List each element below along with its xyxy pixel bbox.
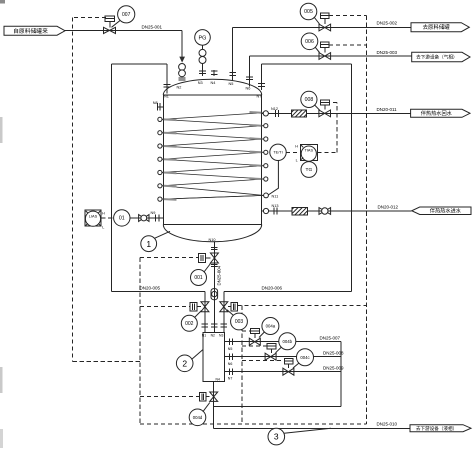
flange on DN20-011: [274, 110, 276, 117]
instrument bubble 006: [301, 33, 318, 50]
pipe DN20-006 horizontal: [224, 291, 352, 293]
shutoff valve 002: [201, 302, 209, 312]
svg-text:N4: N4: [216, 378, 220, 382]
instrument bubble 002: [181, 315, 197, 331]
vessel 1 shell: [162, 95, 164, 225]
equipment tag 3: [268, 428, 285, 445]
svg-text:DN20-012: DN20-012: [378, 205, 399, 210]
svg-text:DN20-006: DN20-006: [262, 286, 283, 291]
blind flange N4: [211, 70, 218, 72]
coil pass nozzles on vessel walls: [158, 117, 162, 121]
svg-text:01: 01: [119, 215, 125, 221]
svg-text:去下游设备（气相）: 去下游设备（气相）: [416, 54, 457, 61]
pipe: tank2 N4 drop line: [213, 382, 215, 429]
instrument bubble 003: [231, 313, 248, 330]
svg-text:H: H: [102, 211, 105, 215]
svg-text:去原料储罐: 去原料储罐: [423, 23, 451, 31]
signal line (dashed) to valve 004d solenoid box: [140, 396, 200, 398]
svg-text:DN25-010: DN25-010: [377, 422, 398, 427]
svg-text:N3: N3: [198, 81, 203, 85]
svg-text:004d: 004d: [193, 415, 203, 420]
svg-text:N6: N6: [228, 362, 233, 366]
svg-text:L: L: [102, 225, 104, 229]
svg-text:3: 3: [274, 432, 279, 442]
svg-text:伴热热水进水: 伴热热水进水: [430, 207, 462, 215]
flange N5: [229, 71, 236, 73]
control valve 004c: [283, 368, 294, 375]
pipe: N5 riser to DN25-002: [232, 28, 234, 82]
svg-text:L: L: [296, 159, 298, 163]
signal line (dashed) vertical riser x=140: [139, 258, 141, 424]
svg-text:004a: 004a: [266, 324, 276, 329]
nozzle N12: [263, 111, 268, 116]
vessel 1 top head: [163, 79, 261, 95]
pipe: bottom header upper run: [214, 406, 341, 408]
temperature gauge TG: [301, 162, 317, 178]
shutoff valve 001: [210, 253, 218, 263]
break flanges above tank 2: [202, 323, 209, 325]
pipe: N4 stub: [213, 70, 215, 76]
nozzle N11: [264, 193, 269, 198]
pipe: N3 riser to pressure gauge PG: [202, 45, 204, 76]
signal line (dashed) bottom rail: [140, 423, 367, 425]
svg-text:006: 006: [305, 39, 314, 45]
vessel 1 internal heating coil: [162, 113, 264, 120]
flange N10: [211, 247, 218, 249]
flange N2: [179, 77, 186, 79]
signal line (dashed) from valve 006 actuator: [329, 44, 367, 46]
svg-text:N5: N5: [229, 82, 234, 86]
flange N9: [155, 214, 157, 221]
control valve 005: [319, 24, 331, 31]
instrument bubble 004d: [189, 409, 206, 426]
equipment tag 1: [141, 236, 157, 252]
ball valve on level line: [139, 215, 149, 222]
signal line (dashed) from valve 007 actuator down left side: [73, 16, 106, 18]
svg-text:H: H: [295, 144, 298, 148]
svg-text:DN25-009: DN25-009: [323, 365, 344, 370]
svg-text:TIAS: TIAS: [304, 148, 313, 153]
svg-text:005: 005: [304, 9, 313, 15]
svg-text:DN25-007: DN25-007: [320, 335, 341, 340]
pipe: feed line from flag to valve 007 to N2 riser: [63, 30, 182, 32]
shutoff valve 003: [220, 302, 228, 312]
instrument bubble 005: [300, 3, 317, 20]
flexible hose (hatched) DN20-012: [292, 207, 308, 214]
svg-text:2: 2: [182, 358, 187, 368]
instrument bubble 008: [301, 91, 317, 107]
svg-text:001: 001: [194, 275, 203, 281]
instrument bubble 004a: [262, 318, 279, 335]
svg-text:LIAS: LIAS: [89, 213, 98, 218]
control valve 004b: [265, 353, 276, 360]
signal line (dashed) LIAS to level instrument 01: [101, 217, 114, 219]
flag: from raw material tank: [4, 26, 65, 35]
control valve 007: [104, 27, 116, 33]
instrument bubble 004b: [279, 333, 296, 350]
svg-text:DN25-001: DN25-001: [142, 24, 163, 29]
vessel 1 bottom head: [163, 225, 261, 242]
pipe: DN20-005 drop into valve 002 and tank 2 N1: [204, 292, 206, 333]
svg-text:自原料储罐来: 自原料储罐来: [13, 27, 48, 35]
pipe: level gauge line to N9: [114, 217, 164, 219]
signal line (dashed) to valve 002 solenoid box: [140, 306, 190, 308]
svg-text:DN20-005: DN20-005: [140, 286, 161, 291]
pipe: DN20-006 drop into valve 003 and tank 2 N3: [223, 292, 225, 333]
svg-text:去下游设备（液相）: 去下游设备（液相）: [416, 425, 457, 432]
flange N6: [246, 76, 253, 78]
svg-text:DN25-003: DN25-003: [377, 50, 398, 55]
flag: heat tracing hot water supply: [412, 207, 471, 215]
svg-text:N5: N5: [228, 347, 233, 351]
ball valve on DN20-012: [319, 208, 331, 215]
temperature element TE/TI: [270, 144, 286, 160]
pipe: N7 line up-right-down (DN20-006 riser): [260, 64, 262, 90]
flange N3: [199, 70, 206, 72]
equipment tag 2: [176, 355, 193, 372]
pipe: DN25-007 row: [225, 341, 341, 343]
instrument bubble 007: [118, 6, 135, 23]
flag: heat tracing hot water return: [411, 109, 470, 117]
svg-text:DN25-004: DN25-004: [217, 265, 222, 285]
svg-text:008: 008: [305, 97, 314, 103]
pigtail siphon under PG: [199, 49, 206, 56]
signal line (dashed) from valve 005 actuator: [329, 15, 367, 17]
pipe DN20-005 horizontal: [111, 291, 205, 293]
flange N8: [156, 103, 158, 110]
scan artifact marks at page edge: [0, 0, 5, 4]
svg-text:N13: N13: [272, 204, 279, 208]
svg-text:N9: N9: [151, 211, 156, 215]
signal line (dashed) to valve 001 solenoid box: [140, 257, 198, 259]
interlock box LIAS: [85, 210, 101, 226]
svg-text:004c: 004c: [300, 355, 310, 360]
nozzle N13: [263, 208, 268, 213]
svg-text:N7: N7: [228, 376, 233, 380]
flag: to downstream equipment (gas): [412, 52, 470, 61]
flag: to raw material tank: [411, 23, 469, 32]
svg-text:PG: PG: [199, 35, 207, 41]
svg-text:伴热热水回水: 伴热热水回水: [421, 109, 453, 117]
signal line (dashed) branch x=243 to valves 004a/b/c: [241, 306, 243, 423]
pipe DN25-010 bottom run to flag: [214, 427, 410, 429]
control valve 008: [319, 110, 331, 117]
svg-text:TE/TI: TE/TI: [273, 151, 282, 155]
instrument bubble 004c: [297, 349, 314, 366]
pipe DN20-011 hot water return: [262, 112, 411, 114]
instrument bubble 001: [191, 270, 207, 286]
svg-text:N10: N10: [209, 238, 216, 242]
level instrument 01: [114, 210, 130, 226]
pipe: DN25-008 row: [225, 356, 341, 358]
signal line (dashed) TIAS to valve 008 actuator: [317, 151, 337, 153]
svg-text:1: 1: [146, 239, 151, 249]
svg-text:N2: N2: [211, 334, 215, 338]
signal line (dashed) right rail x=366.7: [366, 16, 368, 424]
svg-text:N1: N1: [202, 334, 206, 338]
flange under valve 001: [211, 263, 218, 265]
svg-text:N6: N6: [246, 87, 251, 91]
svg-text:002: 002: [185, 321, 194, 327]
control valve 004a: [249, 338, 260, 345]
pressure gauge PG: [195, 30, 211, 46]
svg-text:N11: N11: [272, 194, 279, 198]
flag: to downstream equipment (liquid): [410, 425, 471, 432]
svg-text:DN25-008: DN25-008: [323, 350, 344, 355]
svg-text:003: 003: [235, 319, 244, 325]
svg-text:004b: 004b: [283, 339, 293, 344]
svg-text:007: 007: [122, 12, 131, 18]
pipe DN20-012 hot water supply: [262, 210, 412, 212]
sight glass: [211, 289, 218, 300]
flange N1: [164, 83, 171, 85]
shutoff valve 004d: [210, 392, 218, 401]
pipe: collection drop x=341: [340, 342, 342, 407]
pipe: N8 stub: [157, 106, 163, 108]
pipe: DN25-009 row: [225, 371, 341, 373]
flexible hose (hatched) DN20-011: [292, 110, 307, 117]
svg-text:DN25-002: DN25-002: [377, 21, 398, 26]
svg-text:N8: N8: [153, 101, 158, 105]
pipe: N1 line up-left-down to DN20-005 header: [166, 64, 168, 93]
flange on DN20-012: [273, 207, 275, 214]
pipe: vessel bottom N10 drop line DN25-004: [213, 242, 215, 332]
svg-text:N2: N2: [177, 85, 182, 89]
spectacle blind on N2 line: [179, 64, 186, 71]
svg-text:N7: N7: [257, 94, 262, 98]
svg-text:N12: N12: [271, 107, 278, 111]
arrow: feed entering N2: [179, 57, 185, 63]
pipe: N6 riser to DN25-003: [249, 56, 251, 86]
svg-text:DN20-011: DN20-011: [377, 107, 398, 112]
svg-text:N1: N1: [164, 94, 169, 98]
flanges on tank 2 outlet rows: [229, 338, 231, 345]
svg-text:TG: TG: [306, 167, 313, 173]
signal line (dashed) TE to TIAS: [286, 151, 300, 153]
control valve 006: [319, 53, 331, 60]
interlock box TIAS: [300, 144, 317, 160]
svg-text:N3: N3: [219, 334, 223, 338]
flange N7: [258, 83, 265, 85]
svg-text:N4: N4: [211, 81, 216, 85]
tank 2 body: [203, 332, 225, 381]
signal line (dashed) from valve 003 box to right rail: [237, 305, 366, 307]
